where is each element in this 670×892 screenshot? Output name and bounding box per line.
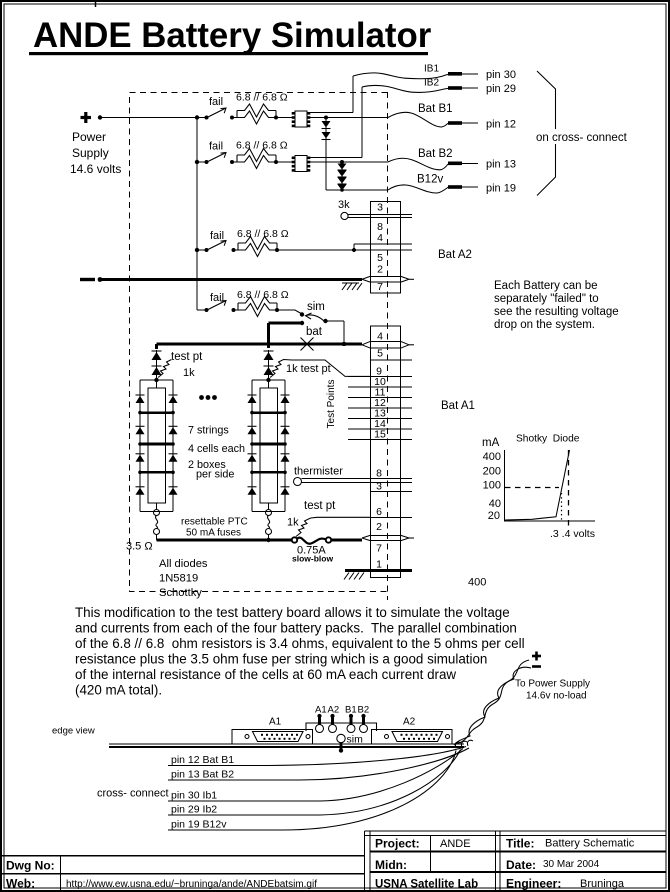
A1 pin4 splice symbols (362, 341, 414, 348)
Bat B2 wavy wire to pin 13 (388, 158, 448, 170)
minus terminal (80, 278, 95, 281)
svg-text:pin 12: pin 12 (486, 119, 516, 131)
left string outer frame (140, 380, 173, 512)
left string bypass diodes left leg (136, 395, 145, 495)
svg-text:slow-blow: slow-blow (292, 554, 333, 564)
svg-text:Dwg No:: Dwg No: (6, 859, 55, 873)
svg-text:IB1: IB1 (424, 64, 439, 75)
svg-text:see the resulting voltage: see the resulting voltage (494, 306, 619, 318)
shunt box U1 (292, 111, 311, 127)
wire U1 to Bat B1 node (307, 116, 388, 120)
cross-connect wire pin13 (168, 748, 469, 781)
svg-text:Engineer:: Engineer: (506, 877, 561, 891)
Bat B1 wavy wire to pin 12 (388, 112, 448, 127)
thermister (294, 466, 413, 486)
banana plug B1 (347, 714, 355, 733)
svg-text:Schottky: Schottky (159, 587, 202, 599)
diode graph: dotted .3 line (561, 493, 563, 521)
shunt box U2 (292, 156, 311, 172)
svg-text:pin 13: pin 13 (486, 159, 516, 171)
ground at A1 pin1 (344, 573, 364, 580)
twisted pair wire to power supply (456, 660, 529, 744)
diode graph: y labels (483, 451, 501, 522)
svg-text:400: 400 (468, 577, 486, 589)
svg-text:14.6v no-load: 14.6v no-load (526, 691, 587, 702)
banana plug A1 (316, 714, 324, 733)
connector Bat A1 box (371, 326, 401, 578)
svg-text:3: 3 (377, 202, 383, 214)
svg-text:6.8 // 6.8 Ω: 6.8 // 6.8 Ω (237, 228, 289, 240)
pin 13 terminal (448, 159, 516, 171)
IB1 wavy wire to pin 30 (353, 73, 448, 79)
diode graph: dashed .4 line (568, 450, 570, 528)
svg-text:Bat B1: Bat B1 (418, 103, 453, 115)
svg-text:fail: fail (209, 141, 223, 153)
svg-text:Bruninga: Bruninga (580, 878, 625, 890)
svg-text:test pt: test pt (304, 500, 336, 512)
pin 19 terminal (448, 183, 516, 195)
svg-text:Title:: Title: (506, 837, 534, 851)
power supply plus terminal (81, 112, 92, 123)
svg-text:pin 19 B12v: pin 19 B12v (171, 819, 227, 831)
B12v wire from diode stack bottom (342, 189, 388, 191)
svg-text:Test Points: Test Points (326, 380, 337, 429)
svg-text:5: 5 (377, 348, 383, 360)
cross-connect wire pin29 (168, 750, 461, 816)
right string top vertical (268, 350, 270, 380)
svg-text:resistance plus the 3.5 ohm fu: resistance plus the 3.5 ohm fuse per str… (75, 652, 487, 667)
svg-text:.3 .4 volts: .3 .4 volts (550, 528, 595, 540)
svg-text:6.8 // 6.8 Ω: 6.8 // 6.8 Ω (237, 289, 289, 301)
pin 12 terminal (448, 119, 516, 131)
svg-text:test pt: test pt (171, 351, 203, 363)
svg-text:7: 7 (376, 543, 382, 555)
wire row4 to sim contact (277, 310, 302, 314)
cross-connect wire pin12 (168, 747, 466, 767)
wire row3 to connector A2 pin 4 (277, 244, 371, 252)
A2 pin numbers (377, 202, 383, 294)
banana plug B2 (360, 714, 368, 733)
sim plug (337, 734, 363, 753)
left string cells rect (148, 388, 166, 503)
svg-text:Bat B2: Bat B2 (418, 148, 453, 160)
wire hooks at board (455, 740, 473, 748)
svg-text:thermister: thermister (294, 466, 343, 478)
svg-text:This modification to the test: This modification to the test battery bo… (75, 605, 510, 620)
DB25 connector A2 (edge view) (372, 730, 453, 745)
svg-text:Midn:: Midn: (375, 858, 407, 872)
right string stems (268, 380, 270, 510)
svg-text:8: 8 (376, 468, 382, 480)
strings note text (188, 425, 245, 481)
power supply label (70, 130, 121, 176)
resistor 6.8//6.8 row4 (232, 289, 289, 317)
svg-text:4 cells each: 4 cells each (188, 443, 245, 455)
sim switch contacts (300, 312, 304, 325)
right fuse lower terminal (266, 529, 272, 535)
plus bus vertical (196, 118, 198, 311)
right string cell dividers (250, 411, 287, 474)
svg-text:15: 15 (374, 429, 386, 441)
note text (494, 280, 619, 331)
diode chain D1 (2 diodes) (322, 118, 331, 191)
0.75A fuse (292, 537, 334, 563)
A1 pin6 line (371, 516, 413, 518)
right string outer frame (252, 380, 285, 512)
svg-text:To Power Supply: To Power Supply (515, 679, 590, 690)
resettable PTC label (181, 517, 248, 539)
svg-text:separately "failed" to: separately "failed" to (494, 293, 599, 305)
cross-connect wire pin30 (168, 749, 463, 802)
sim common wire to bus (326, 321, 347, 346)
IB1 sense tap wire (310, 76, 353, 113)
A1 pin2 splice symbols (362, 535, 414, 541)
svg-text:Bat A2: Bat A2 (438, 249, 472, 261)
svg-text:http://www.ew.usna.edu/~brunin: http://www.ew.usna.edu/~bruninga/ande/AN… (66, 879, 317, 890)
svg-text:B1: B1 (345, 705, 357, 716)
wire U2 to Bat B2 node (307, 160, 388, 164)
svg-text:5: 5 (377, 252, 383, 264)
svg-text:drop on the system.: drop on the system. (494, 319, 595, 331)
svg-text:pin 29: pin 29 (486, 83, 516, 95)
svg-text:3k: 3k (338, 199, 350, 211)
svg-text:200: 200 (483, 466, 501, 478)
left fuse terminal circle (154, 510, 160, 516)
svg-text:edge view: edge view (52, 726, 95, 737)
svg-text:400: 400 (483, 451, 501, 463)
right PTC fuse squiggle (267, 516, 269, 529)
border tick artifact (95, 0, 97, 7)
corner chain1 to chain2 (326, 189, 342, 191)
resistor 6.8//6.8 row2 (230, 140, 288, 169)
svg-text:All diodes: All diodes (159, 558, 208, 570)
1k test pt resistor left (158, 351, 203, 379)
svg-text:ANDE: ANDE (440, 838, 471, 850)
svg-text:4: 4 (377, 331, 383, 343)
B12v wavy wire to pin 19 (388, 185, 448, 193)
resistor 6.8//6.8 row3 (232, 228, 289, 257)
svg-text:30 Mar 2004: 30 Mar 2004 (543, 859, 600, 870)
svg-text:1k: 1k (183, 367, 195, 379)
A1 pin3 line (371, 491, 413, 493)
svg-text:Supply: Supply (72, 146, 109, 160)
banana plug A2 (329, 714, 337, 733)
on cross-connect label (533, 129, 633, 144)
left PTC fuse squiggle (155, 516, 157, 529)
right fuse terminal circle (266, 510, 272, 516)
1k test pt resistor right (270, 360, 371, 378)
svg-text:3: 3 (376, 480, 382, 492)
bat thick wire to battery strings (269, 323, 303, 348)
svg-text:1: 1 (376, 559, 382, 571)
svg-text:A1: A1 (269, 717, 282, 728)
right string top diode 1 (264, 351, 274, 360)
svg-text:per side: per side (196, 469, 234, 481)
svg-text:resettable PTC: resettable PTC (181, 517, 248, 528)
A2 minus feedthrough lines (371, 277, 401, 283)
svg-text:on cross- connect: on cross- connect (536, 132, 628, 144)
DB25 connector A1 (edge view) (232, 730, 313, 745)
sim switch arm arrow (306, 313, 328, 323)
wire resistor to shunt row1 (276, 117, 295, 119)
3k thermistor pot (338, 199, 412, 220)
svg-text:B12v: B12v (417, 174, 443, 186)
svg-text:fail: fail (210, 292, 224, 304)
to power supply label (515, 679, 590, 702)
board edge lines (109, 744, 464, 747)
svg-text:pin 12 Bat B1: pin 12 Bat B1 (171, 754, 234, 766)
svg-text:pin 30: pin 30 (486, 69, 516, 81)
svg-text:fail: fail (210, 230, 224, 242)
all diodes label (159, 558, 208, 599)
pin 30 terminal (448, 69, 516, 81)
A1 pin4 feedthrough lines (371, 342, 401, 349)
diode chain D2 (4 diodes) (338, 162, 347, 192)
bus stub wires to switches (197, 118, 207, 311)
ground at Bat A2 pin (342, 283, 362, 290)
svg-text:1N5819: 1N5819 (159, 573, 198, 585)
A1 pin1 ground wire (345, 569, 412, 572)
A1 pin5 line (371, 359, 413, 361)
wire resistor to shunt row2 (276, 161, 295, 163)
svg-text:Project:: Project: (375, 837, 420, 851)
left string top wire (155, 344, 158, 349)
svg-text:A2: A2 (403, 717, 416, 728)
IB2 wavy wire to pin 29 (362, 85, 448, 92)
pin 29 terminal (448, 83, 516, 95)
svg-text:3.5 Ω: 3.5 Ω (126, 541, 153, 553)
cross-connect wire pin19 (168, 751, 456, 831)
bottom rail thick wire (157, 539, 363, 542)
right string bypass diodes right leg (281, 395, 290, 495)
test point stub lines (348, 376, 412, 439)
svg-text:pin 13 Bat B2: pin 13 Bat B2 (171, 769, 234, 781)
left string top node (154, 378, 158, 382)
svg-text:ANDE Battery Simulator: ANDE Battery Simulator (33, 16, 432, 55)
fail switch row1 (205, 96, 227, 120)
svg-text:50 mA fuses: 50 mA fuses (186, 528, 241, 539)
svg-text:40: 40 (489, 498, 501, 510)
dashed connector center line (387, 92, 389, 600)
svg-text:pin 19: pin 19 (486, 183, 516, 195)
title block right frame (365, 831, 667, 890)
svg-text:Date:: Date: (506, 858, 536, 872)
left string stems (156, 380, 158, 510)
svg-text:20: 20 (488, 510, 500, 522)
svg-text:14.6 volts: 14.6 volts (70, 162, 121, 176)
plus wire to bus (98, 115, 197, 119)
power supply plus terminal (bottom) (532, 652, 541, 661)
left string bypass diodes right leg (169, 395, 178, 495)
svg-text:2: 2 (377, 264, 383, 276)
svg-text:6: 6 (376, 506, 382, 518)
svg-text:Web:: Web: (6, 877, 35, 891)
left string to rail (156, 535, 158, 541)
svg-text:Battery Schematic: Battery Schematic (545, 838, 635, 850)
svg-text:100: 100 (483, 480, 501, 492)
dashed simulator board boundary (130, 93, 388, 592)
svg-text:A1: A1 (315, 705, 327, 716)
right string top node (266, 378, 270, 382)
bus junction dots (195, 115, 199, 119)
title underline (29, 52, 428, 55)
A2 splice symbols (362, 276, 414, 282)
svg-text:Power: Power (72, 130, 106, 144)
A1 pin numbers (374, 331, 386, 571)
right string bypass diodes left leg (248, 395, 257, 495)
svg-text:Bat A1: Bat A1 (441, 400, 475, 412)
description paragraph (75, 605, 525, 698)
svg-text:6.8 // 6.8 Ω: 6.8 // 6.8 Ω (236, 92, 288, 104)
svg-text:1k: 1k (287, 517, 299, 529)
svg-text:of the 6.8 // 6.8 ohm resisto: of the 6.8 // 6.8 ohm resistors is 3.4 o… (75, 636, 525, 651)
svg-text:A2: A2 (328, 705, 340, 716)
fail switch row3 (205, 230, 227, 252)
power supply minus terminal (bottom) (532, 665, 541, 668)
svg-text:bat: bat (306, 326, 323, 338)
svg-text:4: 4 (377, 232, 383, 244)
diode graph: curve (505, 450, 570, 520)
IB2 sense tap wire (310, 87, 362, 158)
svg-text:sim: sim (347, 734, 364, 746)
diode graph: dashed 100 line (505, 487, 559, 489)
right string cells rect (260, 388, 278, 503)
diode graph: axes (505, 450, 596, 521)
fail switch row4 (205, 292, 227, 312)
A1 pin2 feedthrough lines (371, 536, 401, 541)
svg-text:Each Battery can be: Each Battery can be (494, 280, 598, 292)
bus cut X symbol (301, 338, 314, 351)
svg-text:pin 29 Ib2: pin 29 Ib2 (171, 804, 217, 816)
A2 pin4 feedthrough lines (371, 244, 413, 250)
1k test pt at fuse (287, 500, 371, 537)
right string to rail (266, 535, 270, 543)
svg-text:2: 2 (376, 521, 382, 533)
connector Bat A2 box (371, 202, 401, 294)
title block left rows (2, 856, 365, 891)
left fuse lower terminal (154, 529, 160, 535)
svg-text:7: 7 (377, 281, 383, 293)
resistor 6.8//6.8 row1 (230, 92, 288, 125)
cross-connect bracket (537, 71, 556, 196)
svg-text:1k test pt: 1k test pt (286, 363, 331, 375)
left string top diode 2 (152, 366, 162, 375)
svg-text:Shotky Diode: Shotky Diode (516, 434, 580, 445)
ellipsis dots (199, 395, 217, 400)
minus bus thick wire (98, 277, 362, 282)
svg-text:of the internal resistance of: of the internal resistance of the cells … (75, 667, 456, 682)
svg-text:and currents from each of the: and currents from each of the four batte… (75, 621, 517, 636)
left string cell dividers (138, 411, 175, 474)
svg-text:(420 mA total).: (420 mA total). (75, 683, 162, 698)
fail switch row2 (205, 141, 227, 165)
svg-text:mA: mA (482, 437, 500, 449)
svg-text:cross- connect: cross- connect (97, 788, 169, 800)
svg-text:fail: fail (209, 96, 223, 108)
plug labels A1 A2 B1 B2 (315, 705, 369, 716)
svg-text:B2: B2 (358, 705, 370, 716)
svg-text:6.8 // 6.8 Ω: 6.8 // 6.8 Ω (236, 140, 288, 152)
plug bracket rail (306, 723, 377, 731)
svg-text:USNA Satellite Lab: USNA Satellite Lab (375, 879, 478, 891)
svg-text:sim: sim (307, 301, 325, 313)
svg-text:pin 30 Ib1: pin 30 Ib1 (171, 790, 217, 802)
svg-text:7 strings: 7 strings (188, 425, 229, 437)
svg-text:IB2: IB2 (424, 78, 439, 89)
left string top diode 1 (152, 351, 162, 360)
battery bus thick wire (157, 343, 363, 346)
right string top diode 2 (264, 366, 274, 375)
